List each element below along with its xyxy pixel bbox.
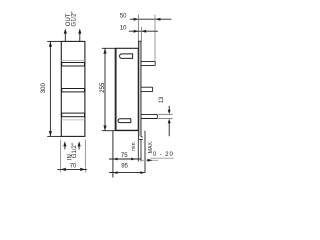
pipe stub 3 (bottom) xyxy=(141,114,157,118)
plate rear end cap xyxy=(141,136,143,138)
svg-text:10: 10 xyxy=(120,26,127,32)
dim 70 line xyxy=(57,168,87,170)
svg-text:0 - 20: 0 - 20 xyxy=(153,152,174,158)
depth range leader xyxy=(141,159,158,161)
svg-text:50: 50 xyxy=(120,14,127,20)
dim 75 arrow right xyxy=(131,158,136,161)
dim 13 extension bottom xyxy=(158,118,172,120)
dim 95 arrow right xyxy=(140,171,145,174)
IN flow arrow left xyxy=(63,141,66,149)
dim 300 extension bottom xyxy=(47,135,61,137)
side slot A xyxy=(120,54,133,59)
svg-text:13: 13 xyxy=(159,96,165,103)
dim 13 extension top xyxy=(158,113,172,115)
dim 13 arrow down xyxy=(168,106,171,115)
dim 70 extension right xyxy=(84,140,86,173)
dim 13 arrow up xyxy=(168,119,171,137)
dim 50 extension left xyxy=(137,15,139,42)
dim 255 arrow down xyxy=(103,126,106,131)
svg-text:95: 95 xyxy=(121,163,128,169)
side view body xyxy=(116,48,138,130)
dim 300 extension top xyxy=(47,40,61,42)
max wall line xyxy=(144,131,146,173)
spindle rod left line xyxy=(137,140,139,162)
dim 300 arrow down xyxy=(49,131,52,136)
dim 70 extension left xyxy=(60,140,62,173)
dim 50 arrow left xyxy=(134,18,139,21)
side body left wall thick line xyxy=(114,48,116,130)
dim 255 top extension xyxy=(102,47,116,49)
dim 255 line xyxy=(104,49,106,131)
dim 50 extension right xyxy=(154,15,156,62)
OUT flow arrow left xyxy=(64,28,67,41)
mounting plate front face xyxy=(137,41,139,139)
dim 10 arrow left xyxy=(134,30,139,33)
svg-text:min.: min. xyxy=(131,141,137,151)
front slot 1 xyxy=(62,63,85,67)
dim 75 arrow left xyxy=(113,158,118,161)
side slot B xyxy=(118,119,131,123)
dim 300 line xyxy=(49,42,51,137)
front slot 3 xyxy=(62,113,85,117)
svg-text:300: 300 xyxy=(41,83,47,94)
dim 300 arrow up xyxy=(49,42,52,47)
dim 255 arrow up xyxy=(103,48,106,53)
dims 75/95 shared left extension xyxy=(112,131,114,178)
front slot 3 shadow line xyxy=(61,119,85,121)
dim 50 arrow right xyxy=(156,18,161,21)
dim 75 line xyxy=(109,158,142,160)
dim 10 extension right xyxy=(140,27,142,41)
svg-text:G1/2″: G1/2″ xyxy=(72,142,78,158)
svg-text:70: 70 xyxy=(70,163,77,169)
dim 50 line xyxy=(130,18,172,20)
mounting plate inner gray xyxy=(139,42,141,137)
front slot 2 xyxy=(62,89,85,92)
depth range arrow xyxy=(147,159,152,162)
front slot 1 shadow line xyxy=(61,60,85,62)
mounting plate rear face xyxy=(140,41,142,136)
svg-text:G1/2″: G1/2″ xyxy=(72,11,78,27)
dim 70 arrow left xyxy=(61,168,66,171)
dim 95 arrow left xyxy=(113,171,118,174)
mounting plate top cap xyxy=(138,40,142,42)
OUT flow arrow right xyxy=(78,28,81,41)
svg-text:255: 255 xyxy=(100,82,106,93)
dim 0-20 underline xyxy=(150,157,174,159)
svg-text:75: 75 xyxy=(121,153,128,159)
IN flow arrow right xyxy=(78,141,81,149)
front view outline (plate 300x70) xyxy=(61,41,85,136)
dim 10 arrow right xyxy=(141,30,146,33)
dim 70 arrow right xyxy=(80,168,85,171)
mounting plate foot cap xyxy=(139,138,143,140)
pipe stub 2 (middle) xyxy=(141,87,153,91)
spindle rod right line xyxy=(140,140,142,162)
dim 10 line xyxy=(129,30,158,32)
body bottom extension to dims xyxy=(102,130,139,132)
pipe stub 1 (top) xyxy=(141,62,155,66)
dim 95 line xyxy=(109,172,145,174)
